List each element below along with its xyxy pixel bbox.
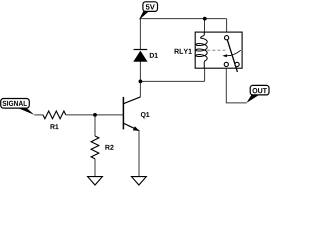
label Q1 bbox=[141, 112, 150, 118]
label RLY1 bbox=[175, 49, 192, 54]
relay NO terminal pin bbox=[235, 62, 239, 66]
relay NC terminal pin bbox=[224, 62, 228, 66]
relay switch arm bbox=[227, 40, 237, 72]
resistor R2 bbox=[91, 136, 99, 159]
ground at emitter bbox=[132, 177, 147, 185]
relay actuation dashed line bbox=[207, 49, 226, 51]
wire R1 to base bbox=[66, 114, 123, 116]
wire coil bottom lead bbox=[204, 68, 206, 81]
transistor Q1 bbox=[123, 97, 140, 131]
label D1 bbox=[150, 53, 158, 58]
port flag SIGNAL bbox=[1, 99, 35, 115]
ground at R2 bbox=[88, 177, 103, 185]
node junction coil top bbox=[203, 17, 207, 21]
port flag OUT bbox=[247, 85, 270, 103]
wire relay NC contact to OUT bbox=[226, 67, 246, 103]
label R2 bbox=[105, 145, 113, 150]
wire switch common feed bbox=[226, 19, 228, 36]
wire node to R2 bbox=[94, 115, 96, 136]
node junction D1 anode and coil return bbox=[139, 80, 143, 84]
wire coil return node to collector node bbox=[140, 80, 204, 82]
wire R2 to ground bbox=[94, 159, 96, 177]
resistor R1 bbox=[43, 111, 66, 119]
wire coil top lead bbox=[204, 19, 206, 32]
power flag 5V bbox=[139, 2, 158, 20]
wire collector drop bbox=[139, 81, 141, 97]
relay coil bbox=[196, 32, 207, 68]
label R1 bbox=[50, 124, 58, 129]
node junction base and R2 bbox=[93, 113, 97, 117]
wire signal to R1 bbox=[34, 114, 43, 116]
diode D1 bbox=[134, 50, 148, 62]
relay RLY1 body bbox=[195, 32, 242, 68]
wire D1 anode down to node bbox=[139, 61, 141, 81]
wire 5V down to D1 cathode bbox=[139, 19, 141, 50]
relay common terminal pin bbox=[225, 36, 229, 40]
wire emitter to ground bbox=[138, 130, 140, 177]
relay actuation arrow bbox=[222, 50, 240, 57]
wire top rail 5V to relay switch bbox=[140, 18, 226, 20]
